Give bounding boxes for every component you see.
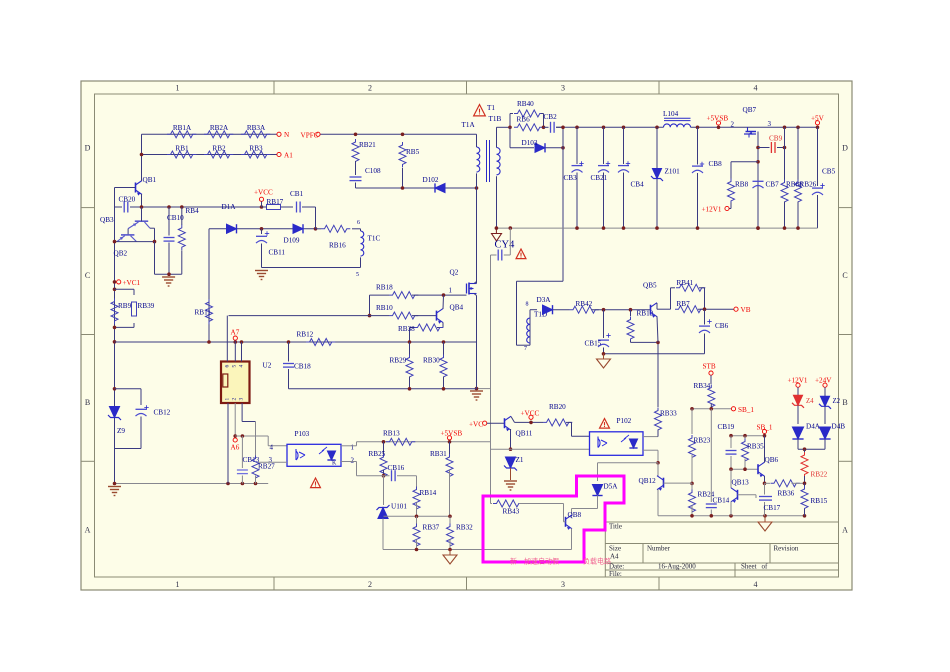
svg-text:L104: L104: [663, 110, 679, 118]
svg-text:CB14: CB14: [713, 497, 730, 505]
svg-text:RB9: RB9: [118, 302, 132, 310]
svg-text:CB6: CB6: [715, 322, 729, 330]
svg-text:RB21: RB21: [359, 141, 376, 149]
svg-text:C: C: [842, 271, 847, 280]
svg-text:STB: STB: [703, 362, 716, 370]
svg-text:D102: D102: [423, 176, 439, 184]
svg-text:QB12: QB12: [639, 477, 657, 485]
svg-text:T1C: T1C: [368, 235, 381, 243]
svg-text:6: 6: [357, 220, 360, 226]
svg-text:RB27: RB27: [258, 463, 275, 471]
svg-text:RB17: RB17: [267, 198, 284, 206]
svg-text:D5A: D5A: [604, 483, 619, 491]
svg-text:A7: A7: [231, 329, 240, 337]
svg-text:2: 2: [232, 398, 238, 401]
svg-text:+5V: +5V: [811, 115, 825, 123]
svg-text:RB2: RB2: [212, 145, 226, 153]
svg-text:CB21: CB21: [591, 174, 608, 182]
svg-text:负载电路: 负载电路: [583, 557, 611, 566]
svg-text:of: of: [762, 563, 769, 571]
svg-text:Z9: Z9: [117, 427, 125, 435]
svg-text:SB_1: SB_1: [738, 406, 754, 414]
svg-text:5: 5: [232, 365, 238, 368]
svg-text:File:: File:: [609, 570, 622, 578]
svg-text:CB8: CB8: [709, 160, 723, 168]
svg-text:A4: A4: [610, 553, 619, 561]
svg-text:QB2: QB2: [114, 250, 128, 258]
svg-text:RB2A: RB2A: [210, 124, 229, 132]
svg-text:RB11: RB11: [195, 309, 212, 317]
svg-text:RB38: RB38: [398, 325, 415, 333]
svg-text:CB12: CB12: [154, 409, 171, 417]
svg-text:5: 5: [356, 272, 359, 278]
svg-text:1: 1: [176, 580, 180, 589]
svg-text:RB34: RB34: [694, 382, 711, 390]
svg-text:Z1: Z1: [516, 456, 524, 464]
svg-text:D4A: D4A: [806, 423, 821, 431]
svg-text:D3A: D3A: [537, 296, 552, 304]
svg-text:RB16: RB16: [329, 242, 346, 250]
svg-text:6: 6: [225, 365, 231, 368]
svg-text:RB37: RB37: [423, 524, 440, 532]
svg-text:Size: Size: [609, 545, 621, 553]
svg-text:RB18: RB18: [376, 284, 393, 292]
svg-text:Number: Number: [647, 545, 671, 553]
svg-text:3: 3: [239, 398, 245, 401]
svg-text:QB1: QB1: [143, 176, 157, 184]
svg-text:RB35: RB35: [747, 443, 764, 451]
svg-text:RB26: RB26: [800, 181, 817, 189]
svg-text:1: 1: [225, 398, 231, 401]
svg-text:CB9: CB9: [769, 135, 783, 143]
svg-text:CB7: CB7: [766, 181, 780, 189]
svg-text:+VC: +VC: [469, 420, 483, 428]
svg-text:T1A: T1A: [462, 121, 476, 129]
svg-text:16-Aug-2000: 16-Aug-2000: [658, 563, 696, 571]
svg-text:QB13: QB13: [732, 478, 750, 486]
svg-text:RB30: RB30: [423, 357, 440, 365]
svg-text:RB3: RB3: [249, 145, 263, 153]
svg-text:RB41: RB41: [677, 279, 694, 287]
svg-text:RB20: RB20: [549, 403, 566, 411]
svg-text:1: 1: [449, 287, 453, 295]
svg-text:RB6: RB6: [517, 116, 531, 124]
svg-text:RB25: RB25: [369, 450, 386, 458]
svg-text:RB31: RB31: [430, 450, 447, 458]
svg-text:A: A: [842, 526, 848, 535]
svg-text:QB3: QB3: [100, 216, 114, 224]
svg-text:CB16: CB16: [388, 464, 405, 472]
svg-text:P103: P103: [295, 430, 310, 438]
svg-text:RB7: RB7: [677, 300, 691, 308]
svg-text:RB43: RB43: [503, 508, 520, 516]
svg-text:CB17: CB17: [764, 504, 781, 512]
svg-text:CB19: CB19: [718, 423, 735, 431]
svg-text:Revision: Revision: [774, 545, 799, 553]
svg-text:+VCC: +VCC: [521, 410, 540, 418]
svg-text:4: 4: [754, 84, 758, 93]
svg-text:RB8: RB8: [735, 181, 749, 189]
svg-text:A6: A6: [231, 444, 240, 452]
svg-text:D109: D109: [284, 237, 300, 245]
svg-text:4: 4: [239, 365, 245, 368]
svg-text:D: D: [842, 144, 848, 153]
svg-text:CB2: CB2: [544, 113, 558, 121]
svg-text:QB6: QB6: [765, 456, 779, 464]
svg-text:CB5: CB5: [822, 168, 836, 176]
svg-text:A: A: [85, 526, 91, 535]
svg-text:7: 7: [524, 346, 527, 352]
svg-text:RB1A: RB1A: [173, 124, 192, 132]
svg-text:RB23: RB23: [694, 437, 711, 445]
svg-text:N: N: [284, 131, 290, 139]
svg-text:K: K: [332, 461, 337, 467]
svg-text:RB4: RB4: [186, 207, 200, 215]
svg-text:RB39: RB39: [138, 302, 155, 310]
svg-text:T1: T1: [487, 104, 495, 112]
svg-text:D1A: D1A: [222, 203, 237, 211]
svg-text:QB5: QB5: [643, 282, 657, 290]
svg-text:RB1: RB1: [175, 145, 189, 153]
svg-text:U101: U101: [391, 503, 407, 511]
svg-text:+VCC: +VCC: [254, 189, 273, 197]
svg-text:Z101: Z101: [665, 168, 681, 176]
svg-text:QB8: QB8: [568, 511, 582, 519]
svg-text:CB20: CB20: [119, 196, 136, 204]
svg-text:RB22: RB22: [811, 470, 828, 478]
svg-text:C108: C108: [365, 167, 381, 175]
svg-text:CY4: CY4: [495, 240, 516, 251]
svg-text:2: 2: [351, 457, 355, 465]
svg-text:2: 2: [731, 121, 735, 129]
svg-text:QB4: QB4: [450, 304, 464, 312]
svg-text:QB7: QB7: [743, 106, 757, 114]
svg-text:U2: U2: [263, 362, 272, 370]
svg-text:4: 4: [270, 444, 274, 452]
svg-text:8: 8: [526, 302, 529, 308]
svg-text:RB10: RB10: [376, 304, 393, 312]
svg-text:A1: A1: [284, 152, 293, 160]
svg-text:CB1: CB1: [290, 190, 304, 198]
svg-text:RB32: RB32: [456, 524, 473, 532]
svg-text:D4B: D4B: [832, 423, 846, 431]
svg-text:1: 1: [351, 444, 355, 452]
svg-text:CB3: CB3: [564, 174, 578, 182]
svg-text:RB40: RB40: [517, 100, 534, 108]
svg-text:+VC1: +VC1: [123, 279, 141, 287]
svg-text:RB33: RB33: [660, 410, 677, 418]
svg-text:B: B: [842, 398, 847, 407]
svg-text:RB36: RB36: [778, 489, 795, 497]
svg-text:RB12: RB12: [297, 331, 314, 339]
svg-text:RB14: RB14: [420, 489, 437, 497]
svg-text:CB15: CB15: [585, 340, 602, 348]
svg-text:T1B: T1B: [489, 115, 502, 123]
svg-text:CB11: CB11: [269, 249, 286, 257]
svg-text:新 加速启动假: 新 加速启动假: [510, 557, 559, 566]
svg-text:CB4: CB4: [631, 181, 645, 189]
svg-text:RB29: RB29: [390, 357, 407, 365]
svg-text:Sheet: Sheet: [741, 563, 757, 571]
svg-text:P102: P102: [617, 417, 632, 425]
svg-text:D: D: [85, 144, 91, 153]
svg-text:C: C: [85, 271, 90, 280]
svg-text:4: 4: [754, 580, 758, 589]
svg-text:3: 3: [561, 84, 565, 93]
svg-text:2: 2: [368, 580, 372, 589]
svg-text:Title: Title: [609, 523, 622, 531]
svg-text:D103: D103: [522, 139, 538, 147]
svg-text:2: 2: [368, 84, 372, 93]
svg-text:+12V1: +12V1: [702, 206, 722, 214]
svg-text:B: B: [85, 398, 90, 407]
svg-text:VB: VB: [741, 306, 751, 314]
svg-text:3: 3: [561, 580, 565, 589]
svg-text:RB13: RB13: [383, 430, 400, 438]
svg-text:CB18: CB18: [294, 363, 311, 371]
svg-text:RB5: RB5: [406, 148, 420, 156]
svg-text:QB11: QB11: [516, 430, 533, 438]
svg-text:Q2: Q2: [450, 269, 459, 277]
svg-text:RB42: RB42: [576, 300, 593, 308]
svg-text:3: 3: [768, 120, 772, 128]
svg-text:1: 1: [176, 84, 180, 93]
svg-text:Z4: Z4: [806, 398, 814, 405]
svg-text:RB15: RB15: [811, 497, 828, 505]
svg-text:RB3A: RB3A: [247, 124, 266, 132]
svg-text:Z2: Z2: [833, 398, 841, 405]
svg-text:SB_1: SB_1: [757, 423, 773, 431]
